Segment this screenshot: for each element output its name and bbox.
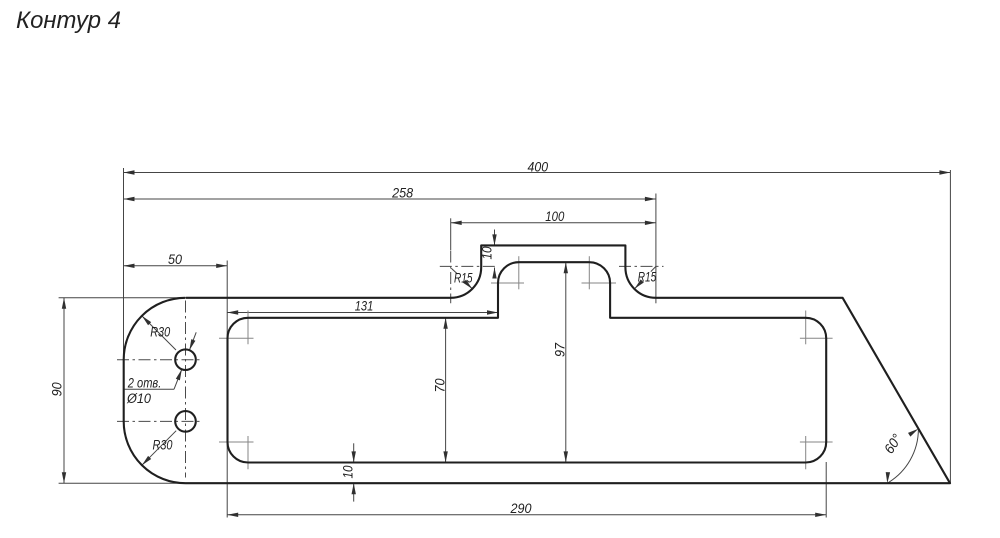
svg-text:R30: R30	[153, 437, 173, 453]
leader R30 bottom	[142, 431, 176, 466]
dim text 10 bottom	[340, 465, 356, 478]
dim text 60 deg	[881, 431, 906, 457]
corner center cross pocket bottom-right	[800, 441, 833, 443]
dimension 10 bump lines	[494, 230, 496, 246]
dimension 90 line	[63, 298, 65, 483]
dimension 131 line	[227, 312, 498, 314]
svg-text:Контур 4: Контур 4	[16, 7, 121, 34]
dim text 70	[432, 378, 448, 392]
dimension 60 deg arc	[887, 429, 918, 483]
extension line pocket left edge (for dims 50/131/290)	[226, 261, 228, 518]
svg-text:10: 10	[479, 246, 495, 259]
svg-text:50: 50	[168, 251, 182, 267]
dimension 10 bottom lines	[353, 443, 355, 462]
leader 2 holes shelf	[124, 388, 174, 390]
dimension 97 line	[565, 262, 567, 462]
corner center cross pocket top-left	[219, 337, 254, 339]
inner pocket contour	[228, 262, 827, 462]
dimension 400 line	[124, 172, 951, 174]
dimension 290 line	[227, 514, 826, 516]
svg-text:258: 258	[391, 185, 413, 201]
dim text 97	[552, 342, 568, 357]
extension line bottom edge left (for dim 90)	[59, 482, 186, 484]
extension line pocket right edge (for dim 290)	[825, 462, 827, 518]
dimension 100 line	[451, 222, 656, 224]
svg-text:290: 290	[510, 500, 532, 516]
svg-text:10: 10	[340, 465, 356, 478]
centerline R15 left vertical	[450, 251, 452, 304]
extension line left edge (for dims 400/258/50)	[123, 168, 125, 360]
corner center cross pocket bottom-left	[219, 441, 254, 443]
corner center cross inner bump top-right	[582, 282, 617, 284]
svg-text:131: 131	[355, 298, 374, 314]
leader small at hole 1	[189, 332, 196, 350]
svg-text:2 отв.: 2 отв.	[127, 375, 161, 391]
hole 1	[175, 349, 196, 370]
svg-text:R15: R15	[454, 269, 473, 285]
extension line at R15 right tangent (for dims 258/100)	[655, 194, 657, 304]
svg-text:97: 97	[552, 342, 568, 357]
corner center cross pocket top-right	[800, 337, 833, 339]
hole 2	[175, 411, 196, 432]
corner center cross inner bump top-left	[491, 282, 524, 284]
svg-text:R15: R15	[638, 269, 657, 285]
dim text 90	[49, 382, 65, 396]
svg-text:70: 70	[432, 378, 448, 392]
centerline hole 1 horizontal	[117, 359, 203, 361]
dimension 258 line	[124, 198, 656, 200]
extension line at R15 left tangent (for dim 100)	[450, 218, 452, 250]
svg-text:90: 90	[49, 382, 65, 396]
outer contour of part	[124, 245, 950, 483]
svg-text:100: 100	[545, 208, 564, 224]
centerline R15 left horizontal	[440, 265, 498, 267]
leader R30 top	[142, 316, 176, 350]
dim text 10 bump	[479, 246, 495, 259]
arrowheads	[62, 170, 951, 517]
dimension 50 line	[124, 265, 228, 267]
svg-text:Ø10: Ø10	[126, 390, 151, 406]
centerline hole 2 horizontal	[117, 420, 203, 422]
dimension 70 line	[445, 318, 447, 463]
centerline vertical through holes	[185, 301, 187, 478]
svg-text:R30: R30	[150, 324, 170, 340]
extension line right corner (for dim 400)	[949, 170, 951, 483]
leader R15 right	[651, 266, 656, 271]
extension line top edge left (for dim 90)	[59, 297, 186, 299]
leader R15 left	[451, 268, 457, 274]
svg-text:400: 400	[528, 158, 549, 174]
centerline R15 right horizontal	[619, 265, 664, 267]
